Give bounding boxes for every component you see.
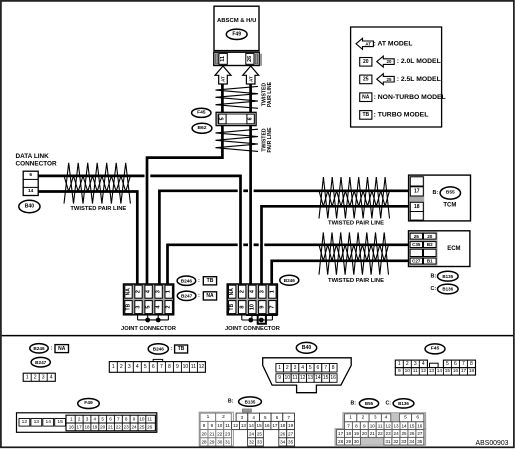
svg-text:7: 7	[324, 365, 327, 371]
svg-text:3: 3	[414, 361, 417, 367]
B55/B136 housing	[343, 413, 426, 430]
ECM box with connector B135/B136	[409, 231, 470, 267]
svg-text:5: 5	[219, 117, 225, 120]
right joint connector bus brackets	[246, 314, 277, 317]
svg-text:18: 18	[346, 431, 352, 436]
svg-text:7: 7	[269, 306, 275, 309]
svg-text:: NON-TURBO MODEL: : NON-TURBO MODEL	[374, 94, 446, 101]
svg-text:16: 16	[453, 368, 459, 374]
svg-text:27: 27	[417, 431, 423, 436]
svg-text:17: 17	[338, 431, 344, 436]
pin 5	[219, 114, 226, 124]
svg-text:NA: NA	[126, 288, 132, 296]
svg-text:3: 3	[294, 365, 297, 371]
svg-text:20: 20	[362, 431, 368, 436]
svg-text:11: 11	[292, 375, 297, 381]
svg-text:13: 13	[429, 368, 435, 374]
svg-text:14: 14	[315, 375, 321, 381]
bottom section: connector pinout F45	[425, 344, 445, 354]
svg-text:JOINT CONNECTOR: JOINT CONNECTOR	[121, 326, 176, 332]
separator line	[2, 335, 514, 337]
svg-text:B:: B:	[228, 399, 234, 405]
svg-text:TB: TB	[126, 303, 132, 310]
connector oval B55	[440, 187, 460, 199]
svg-text:13: 13	[241, 423, 247, 428]
svg-text:35: 35	[288, 440, 294, 445]
F45 pin grid	[395, 368, 475, 376]
svg-text:35: 35	[417, 439, 423, 444]
junction dot	[156, 318, 161, 323]
connector oval B135 (ECM B)	[438, 271, 459, 281]
svg-text:26: 26	[147, 425, 153, 430]
ECM pin C27	[410, 258, 422, 264]
svg-text:2: 2	[286, 365, 289, 371]
svg-text:1: 1	[349, 415, 352, 421]
svg-text:8: 8	[203, 423, 206, 428]
svg-text:B:: B:	[351, 401, 357, 407]
connector oval B40	[19, 200, 40, 212]
svg-text:4: 4	[136, 364, 139, 370]
svg-text:B246: B246	[153, 347, 165, 352]
svg-text:C35: C35	[412, 242, 421, 247]
svg-text:11: 11	[413, 368, 418, 374]
svg-text:3: 3	[42, 374, 45, 380]
ECM blank cells	[410, 249, 422, 256]
svg-text:25: 25	[139, 425, 145, 430]
svg-text:ABS00903: ABS00903	[476, 440, 509, 447]
svg-text:10: 10	[249, 304, 255, 310]
svg-text:4: 4	[422, 361, 425, 367]
svg-text:8: 8	[168, 364, 171, 370]
svg-text:20: 20	[363, 59, 369, 65]
svg-text:12: 12	[199, 364, 205, 370]
svg-text:B:: B:	[430, 273, 436, 279]
svg-text:1: 1	[70, 417, 73, 422]
svg-text:PAIR LINE: PAIR LINE	[267, 81, 273, 107]
svg-text:B62: B62	[198, 125, 207, 131]
svg-text:6: 6	[29, 172, 32, 178]
svg-text:19: 19	[354, 431, 360, 436]
svg-text:1: 1	[26, 374, 29, 380]
wire F45 pin 5 down, left, down to joint connector	[147, 126, 222, 284]
svg-text:NA: NA	[58, 346, 66, 352]
svg-text:C27: C27	[412, 259, 421, 264]
svg-text:8: 8	[125, 417, 128, 422]
legend 2.5L model symbol	[360, 75, 372, 84]
svg-text:25: 25	[363, 77, 369, 83]
svg-text:26: 26	[409, 431, 415, 436]
svg-text:TCM: TCM	[443, 203, 456, 209]
svg-text:CONNECTOR: CONNECTOR	[16, 160, 57, 167]
twisted pair symbol (ECM)	[319, 232, 389, 274]
svg-text:B246: B246	[33, 346, 45, 351]
svg-text:31: 31	[385, 439, 391, 444]
svg-text:10: 10	[370, 423, 376, 428]
svg-text:24: 24	[131, 425, 137, 430]
svg-text:4: 4	[94, 417, 97, 422]
svg-text:20: 20	[427, 234, 433, 239]
svg-text:3: 3	[156, 290, 162, 293]
svg-text:DATA LINK: DATA LINK	[16, 153, 50, 160]
svg-text:6: 6	[317, 365, 320, 371]
ECM model label 25	[410, 233, 422, 239]
svg-text:17: 17	[77, 425, 83, 430]
svg-text:B136: B136	[398, 401, 409, 406]
svg-text:2: 2	[34, 374, 37, 380]
svg-text:34: 34	[280, 440, 286, 445]
svg-text:2: 2	[222, 414, 225, 420]
svg-text:15: 15	[257, 423, 263, 428]
svg-text:10: 10	[183, 364, 189, 370]
svg-text:20: 20	[100, 425, 106, 430]
svg-text:12: 12	[386, 423, 392, 428]
svg-text:ECM: ECM	[447, 246, 460, 252]
svg-text:TWISTED PAIR LINE: TWISTED PAIR LINE	[328, 221, 384, 227]
svg-text:15: 15	[445, 368, 451, 374]
wire right joint connector pin 1 to ECM pin C27/B1	[272, 261, 410, 284]
svg-text:: 2.5L MODEL: : 2.5L MODEL	[397, 76, 441, 83]
svg-text:B247: B247	[181, 294, 193, 299]
junction dot	[248, 318, 253, 323]
svg-text:C:: C:	[386, 401, 392, 407]
svg-text:B136: B136	[442, 287, 453, 292]
bottom section: connector pinout B246/B247 NA	[30, 344, 48, 353]
svg-text:25: 25	[387, 77, 392, 82]
svg-text:1: 1	[207, 414, 210, 420]
svg-text:B40: B40	[302, 345, 312, 351]
svg-text:NA: NA	[206, 293, 214, 299]
legend AT arrow	[356, 38, 373, 49]
svg-text:11: 11	[225, 423, 230, 428]
svg-text:5: 5	[309, 365, 312, 371]
svg-text:11: 11	[147, 417, 152, 422]
svg-text:20: 20	[201, 431, 207, 436]
wire ABSCM pin 11 to F45 pin 5	[221, 84, 224, 113]
TCM pin 18	[410, 202, 423, 211]
legend TB turbo	[360, 111, 372, 120]
svg-text:F49: F49	[84, 400, 93, 406]
svg-text:TB: TB	[362, 112, 369, 118]
ECM pin B1	[424, 258, 437, 264]
svg-text:2: 2	[239, 290, 245, 293]
svg-text:13: 13	[393, 423, 399, 428]
svg-text:9: 9	[398, 368, 401, 374]
connector B246/B247 pin grid (4 pins)	[23, 373, 55, 381]
svg-text:2: 2	[166, 306, 172, 309]
svg-text:6: 6	[248, 117, 254, 120]
svg-text:32: 32	[393, 439, 399, 444]
svg-text:C:: C:	[430, 286, 436, 292]
svg-text:B:: B:	[432, 190, 438, 196]
svg-text:4: 4	[385, 415, 388, 421]
svg-text:30: 30	[217, 440, 223, 445]
svg-text:16: 16	[69, 425, 75, 430]
svg-text:B135: B135	[245, 399, 256, 404]
wire ABSCM pin 26 to B62 pin 6	[249, 84, 252, 113]
svg-text:21: 21	[209, 431, 215, 436]
svg-text:8: 8	[239, 306, 245, 309]
svg-text:29: 29	[346, 439, 352, 444]
bottom section: connector pinout F49	[78, 399, 100, 409]
wire right joint connector pin 3 to TCM pin 18	[262, 206, 411, 284]
svg-text:AT: AT	[248, 76, 253, 82]
svg-text:2: 2	[120, 364, 123, 370]
ECM pin C35	[410, 242, 422, 248]
svg-text:11: 11	[191, 364, 196, 370]
svg-text:TB: TB	[229, 303, 235, 310]
svg-text:9: 9	[133, 417, 136, 422]
svg-text:2: 2	[136, 290, 142, 293]
svg-text:15: 15	[323, 375, 329, 381]
svg-text:12: 12	[233, 423, 239, 428]
svg-text:18: 18	[280, 423, 286, 428]
svg-text:16: 16	[330, 375, 336, 381]
connector oval B246 : TB	[177, 276, 196, 285]
svg-text:14: 14	[45, 419, 51, 425]
svg-text:10: 10	[139, 417, 145, 422]
svg-text:F45: F45	[197, 110, 206, 116]
connector oval F45	[192, 108, 211, 117]
svg-text:17: 17	[461, 368, 467, 374]
TCM box with connector B55	[409, 175, 471, 221]
svg-text:11: 11	[220, 56, 226, 62]
bottom section: connector pinout B246 TB	[148, 344, 168, 354]
svg-text:6: 6	[454, 361, 457, 367]
svg-text:B246: B246	[284, 278, 296, 283]
svg-text:27: 27	[288, 431, 294, 436]
svg-text:13: 13	[308, 375, 314, 381]
svg-text:TB: TB	[207, 278, 214, 284]
AT model arrow	[215, 66, 231, 84]
svg-text:25: 25	[401, 431, 407, 436]
svg-text:23: 23	[124, 425, 130, 430]
TCM pin cell (blank bottom)	[410, 212, 423, 221]
twisted pair symbol (upper)	[216, 86, 259, 108]
junction dot	[145, 318, 150, 323]
svg-text:8: 8	[332, 365, 335, 371]
connector F45/B62 pins 5 and 6	[216, 112, 256, 125]
AT model arrow	[243, 66, 259, 84]
svg-text:B247: B247	[35, 360, 47, 365]
svg-text:26: 26	[247, 56, 253, 62]
data link connector B40 pins 6 and 14	[23, 171, 38, 195]
wire left joint connector pin 3 to TCM pin 17	[159, 191, 237, 284]
svg-text:1: 1	[166, 290, 172, 293]
svg-text:11: 11	[378, 423, 383, 428]
svg-text:NA: NA	[229, 288, 235, 296]
svg-text:3: 3	[128, 364, 131, 370]
legend box	[351, 27, 442, 127]
svg-text:24: 24	[249, 431, 255, 436]
svg-text:TWISTED PAIR LINE: TWISTED PAIR LINE	[70, 206, 126, 212]
svg-text:24: 24	[394, 431, 400, 436]
svg-text:5: 5	[101, 417, 104, 422]
svg-text:14: 14	[437, 368, 443, 374]
svg-text:12: 12	[300, 375, 306, 381]
svg-text:33: 33	[257, 440, 263, 445]
TCM pin 17	[410, 187, 423, 196]
connector oval B136 (ECM C)	[438, 284, 459, 294]
svg-text:9: 9	[278, 375, 281, 381]
svg-text:6: 6	[416, 415, 419, 421]
ECM model label 20	[424, 233, 437, 239]
svg-text:19: 19	[288, 423, 294, 428]
svg-text:8: 8	[355, 423, 358, 428]
svg-text:AT: AT	[221, 76, 226, 82]
svg-text:33: 33	[401, 439, 407, 444]
joint connector B246 (right)	[227, 284, 277, 315]
svg-text:B55: B55	[446, 190, 455, 196]
svg-text:22: 22	[217, 431, 223, 436]
svg-text:14: 14	[28, 188, 34, 194]
pin 26	[246, 53, 254, 64]
svg-text:25: 25	[414, 234, 420, 239]
svg-text:6: 6	[152, 364, 155, 370]
svg-text:7: 7	[347, 423, 350, 428]
svg-text:9: 9	[259, 306, 265, 309]
wire loop through right joint connector pins 9-7	[258, 315, 266, 324]
svg-text:20: 20	[387, 59, 392, 64]
svg-text:B135: B135	[442, 274, 453, 279]
svg-text:7: 7	[117, 417, 120, 422]
connector oval B247 : NA	[177, 291, 196, 300]
svg-text:29: 29	[209, 440, 215, 445]
svg-text:12: 12	[421, 368, 427, 374]
svg-text:10: 10	[217, 423, 223, 428]
svg-text:5: 5	[446, 361, 449, 367]
wire left joint connector pin 4 to ECM pin C35/B2	[168, 245, 238, 284]
svg-text:23: 23	[386, 431, 392, 436]
svg-text:3: 3	[374, 415, 377, 421]
svg-text:14: 14	[249, 423, 255, 428]
svg-text:12: 12	[22, 419, 28, 425]
F49 pin block 1-11 / 16-26	[66, 415, 155, 431]
svg-text:: 2.0L MODEL: : 2.0L MODEL	[397, 58, 441, 65]
svg-text:14: 14	[401, 423, 407, 428]
svg-text:17: 17	[414, 189, 420, 195]
left joint connector bus bracket	[138, 315, 169, 320]
svg-text:19: 19	[92, 425, 98, 430]
pin 11	[219, 53, 227, 64]
svg-text:28: 28	[201, 440, 207, 445]
svg-text:9: 9	[211, 423, 214, 428]
svg-text:10: 10	[405, 368, 411, 374]
svg-text:7: 7	[462, 361, 465, 367]
svg-text:31: 31	[225, 440, 231, 445]
svg-text:16: 16	[417, 423, 423, 428]
svg-text:B55: B55	[365, 401, 374, 406]
svg-text:F49: F49	[232, 32, 241, 38]
svg-text:18: 18	[414, 204, 420, 210]
svg-text:23: 23	[225, 431, 231, 436]
svg-text:AT: AT	[365, 41, 371, 46]
svg-text:B1: B1	[427, 259, 433, 264]
F49 housing	[17, 413, 157, 433]
svg-text:18: 18	[84, 425, 90, 430]
connector oval B62	[192, 123, 212, 133]
svg-text:1: 1	[278, 365, 281, 371]
svg-text:ABSCM & H/U: ABSCM & H/U	[217, 18, 256, 24]
svg-text:TWISTED PAIR LINE: TWISTED PAIR LINE	[328, 278, 384, 284]
svg-text:21: 21	[370, 431, 376, 436]
svg-text:25: 25	[257, 431, 263, 436]
wire data link pin 14 to left joint connector pin 2	[38, 192, 137, 285]
joint connector B246/B247 (left)	[124, 284, 174, 315]
svg-text:3: 3	[259, 290, 265, 293]
svg-text:9: 9	[176, 364, 179, 370]
svg-text:34: 34	[409, 439, 415, 444]
wire B62 pin 6 down to joint connector	[249, 126, 252, 284]
svg-text:2: 2	[406, 361, 409, 367]
svg-text:8: 8	[470, 361, 473, 367]
svg-text:1: 1	[398, 361, 401, 367]
svg-text:13: 13	[34, 419, 40, 425]
twisted pair symbol (lower vertical)	[216, 129, 259, 151]
ECM pin B2	[424, 242, 437, 248]
svg-text:5: 5	[144, 364, 147, 370]
svg-text:26: 26	[280, 431, 286, 436]
svg-text:2: 2	[78, 417, 81, 422]
legend 2.0L model symbol	[360, 58, 372, 67]
svg-text:3: 3	[86, 417, 89, 422]
svg-text:16: 16	[264, 423, 270, 428]
svg-text:1: 1	[112, 364, 115, 370]
legend NA non-turbo	[360, 93, 372, 102]
twisted pair symbol (TCM)	[319, 177, 390, 219]
svg-text:17: 17	[272, 423, 278, 428]
svg-text:15: 15	[409, 423, 415, 428]
svg-text:1: 1	[269, 290, 275, 293]
connector B246 TB pin grid (12 pins)	[153, 359, 163, 361]
svg-text:F45: F45	[431, 346, 440, 352]
svg-text:5: 5	[404, 415, 407, 421]
svg-text:2: 2	[362, 415, 365, 421]
connector oval B246 (right)	[280, 275, 299, 285]
pin 6	[247, 114, 254, 124]
svg-text:: AT MODEL: : AT MODEL	[374, 40, 413, 47]
svg-text:32: 32	[249, 440, 255, 445]
svg-text:21: 21	[108, 425, 114, 430]
svg-text:NA: NA	[362, 94, 370, 100]
connector strip F49 pins 11 and 26	[214, 52, 259, 65]
ABSCM & H/U module box F49	[214, 6, 259, 50]
svg-text:18: 18	[469, 368, 475, 374]
svg-text:3: 3	[136, 306, 142, 309]
svg-text:6: 6	[109, 417, 112, 422]
svg-text:: TURBO MODEL: : TURBO MODEL	[374, 112, 429, 119]
svg-text:B2: B2	[427, 242, 433, 247]
svg-text:4: 4	[50, 374, 53, 380]
junction dot	[259, 318, 264, 323]
svg-text:22: 22	[116, 425, 122, 430]
svg-text:28: 28	[338, 439, 344, 444]
svg-text:TB: TB	[178, 346, 185, 352]
B135 housing tab	[242, 409, 251, 412]
svg-text:B40: B40	[25, 204, 35, 210]
svg-text:10: 10	[285, 375, 291, 381]
svg-text:JOINT CONNECTOR: JOINT CONNECTOR	[225, 326, 280, 332]
bottom section: connector pinout B40 (data link)	[296, 342, 316, 353]
svg-text:22: 22	[378, 431, 384, 436]
svg-text:15: 15	[57, 419, 63, 425]
svg-text:PAIR LINE: PAIR LINE	[267, 127, 273, 153]
svg-text:30: 30	[354, 439, 360, 444]
TCM pin cell (blank top)	[410, 177, 423, 186]
twisted pair symbol (data link)	[64, 163, 130, 204]
svg-text:4: 4	[301, 365, 304, 371]
svg-text:5: 5	[146, 306, 152, 309]
wire data link pin 6 to right joint connector pin 2	[38, 175, 144, 178]
